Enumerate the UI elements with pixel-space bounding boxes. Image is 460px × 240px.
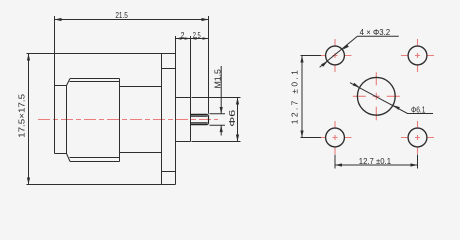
svg-text:2: 2 <box>181 30 185 40</box>
mounting hole bottom-right, Φ3.2 <box>401 121 434 154</box>
svg-text:17.5×17.5: 17.5×17.5 <box>17 94 27 138</box>
dimension 17.5×17.5 (flange size) <box>17 54 162 185</box>
square flange, side view <box>162 54 176 185</box>
boss Φ6, side view <box>176 98 191 142</box>
mounting hole top-right, Φ3.2 <box>401 39 434 72</box>
connector body: mid section <box>120 87 162 153</box>
center hole Φ6.1 (flange face view) <box>353 72 400 120</box>
mounting hole bottom-left, Φ3.2 <box>319 121 352 154</box>
svg-text:12.7 ±0.1: 12.7 ±0.1 <box>290 70 300 124</box>
mounting hole top-left, Φ3.2 (flange face view) <box>319 39 352 72</box>
dimension 21.5 (overall length) <box>55 10 209 114</box>
dimension M1.5 (stub thread) <box>210 66 226 136</box>
svg-text:2.5: 2.5 <box>193 30 201 40</box>
svg-text:Φ6: Φ6 <box>227 109 237 126</box>
svg-text:Φ6.1: Φ6.1 <box>411 104 426 114</box>
connector body: left step (cable end) <box>55 86 67 154</box>
dimension Φ6 (boss diameter) <box>192 98 241 142</box>
leader label 4× Φ3.2 <box>320 27 399 67</box>
threaded stub M1.5, side view <box>191 115 209 125</box>
svg-text:21.5: 21.5 <box>115 10 128 20</box>
connector body: main barrel with chamfers <box>67 79 120 162</box>
svg-text:M1.5: M1.5 <box>213 69 223 89</box>
svg-text:12.7 ±0.1: 12.7 ±0.1 <box>359 156 391 166</box>
leader label Φ6.1 <box>350 83 433 115</box>
dimension 12.7 ±0.1 horizontal (hole spacing) <box>335 155 418 169</box>
svg-text:4 × Φ3.2: 4 × Φ3.2 <box>360 27 391 37</box>
centerline (left side view axis) <box>38 119 218 121</box>
dimensions 2 and 2.5 (flange / boss thickness) <box>176 30 209 98</box>
dimension 12.7 ±0.1 vertical (hole spacing) <box>290 56 322 138</box>
